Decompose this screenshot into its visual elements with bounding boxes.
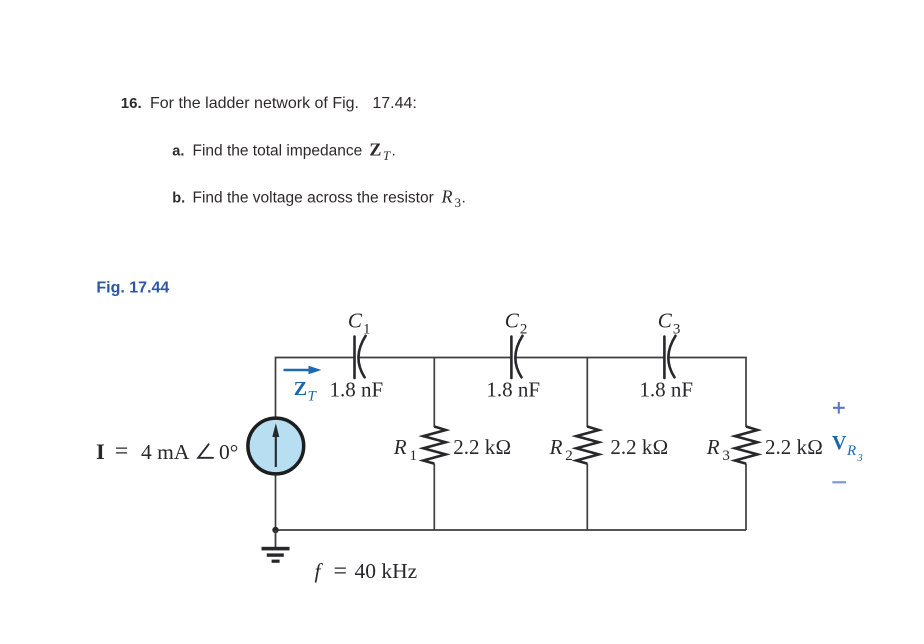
svg-text:1: 1 xyxy=(410,448,418,464)
label R2 xyxy=(549,435,573,464)
svg-text:T: T xyxy=(383,148,391,163)
wire right rail lower xyxy=(745,464,747,531)
angle symbol of source label xyxy=(198,444,213,458)
svg-text:3: 3 xyxy=(722,448,730,464)
label C3 xyxy=(658,309,681,338)
svg-text:.: . xyxy=(462,190,466,207)
svg-text:=: = xyxy=(334,558,348,584)
resistor R1 xyxy=(423,427,446,464)
svg-text:b.: b. xyxy=(172,191,185,207)
wire top segment C2 to C3 xyxy=(516,357,665,359)
svg-text:For the ladder network of Fig.: For the ladder network of Fig. 17.44: xyxy=(150,95,417,112)
svg-text:Find the voltage across the re: Find the voltage across the resistor xyxy=(193,190,434,207)
source label I = 4 mA angle 0deg xyxy=(96,439,238,465)
impedance arrow ZT xyxy=(284,366,322,375)
wire R1 branch lower xyxy=(433,464,435,531)
wire R1 branch upper xyxy=(433,358,435,428)
svg-text:I: I xyxy=(96,439,105,464)
label C1 xyxy=(348,309,371,338)
capacitor C3 xyxy=(664,336,675,378)
svg-text:1.8 nF: 1.8 nF xyxy=(486,378,540,402)
ground xyxy=(262,530,290,563)
wire source bottom xyxy=(275,474,277,530)
svg-text:2.2 kΩ: 2.2 kΩ xyxy=(610,435,668,459)
junction ground node xyxy=(272,527,278,533)
svg-text:a.: a. xyxy=(172,144,184,160)
current source I xyxy=(248,418,304,474)
label ZT xyxy=(294,378,318,405)
problem statement line 16 xyxy=(121,95,417,112)
wire top segment source to C1 xyxy=(276,358,355,419)
wire R2 branch upper xyxy=(586,358,588,428)
svg-text:V: V xyxy=(832,432,847,454)
label R3 xyxy=(706,435,730,464)
svg-text:R: R xyxy=(393,435,407,459)
svg-text:Z: Z xyxy=(369,140,381,160)
svg-text:2.2 kΩ: 2.2 kΩ xyxy=(765,435,823,459)
svg-text:R: R xyxy=(441,187,453,207)
resistor R2 xyxy=(576,427,599,464)
svg-text:16.: 16. xyxy=(121,95,142,112)
svg-text:2.2 kΩ: 2.2 kΩ xyxy=(453,435,511,459)
svg-text:2: 2 xyxy=(565,448,573,464)
label R1 xyxy=(393,435,417,464)
wire top segment C3 to right corner xyxy=(669,358,746,428)
svg-text:T: T xyxy=(308,389,318,405)
svg-text:1: 1 xyxy=(363,322,371,338)
wire bottom rail xyxy=(276,529,747,531)
wire R2 branch lower xyxy=(586,464,588,531)
frequency label f = 40 kHz xyxy=(315,558,418,584)
svg-text:C: C xyxy=(348,309,363,333)
svg-text:0°: 0° xyxy=(219,440,238,464)
svg-text:R: R xyxy=(706,435,720,459)
problem item b xyxy=(172,187,466,211)
wire top segment C1 to C2 xyxy=(359,357,512,359)
svg-text:40 kHz: 40 kHz xyxy=(355,559,418,583)
plus polarity mark xyxy=(833,402,845,414)
problem item a xyxy=(172,140,396,164)
svg-text:3: 3 xyxy=(673,322,681,338)
svg-text:R: R xyxy=(549,435,563,459)
svg-text:3: 3 xyxy=(455,195,462,210)
svg-text:Z: Z xyxy=(294,378,307,400)
svg-text:Find the total impedance: Find the total impedance xyxy=(193,143,363,160)
minus polarity mark xyxy=(832,481,846,483)
svg-text:1.8 nF: 1.8 nF xyxy=(639,378,693,402)
svg-text:f: f xyxy=(315,559,324,583)
svg-text:C: C xyxy=(505,309,520,333)
capacitor C1 xyxy=(355,336,366,378)
svg-text:Fig. 17.44: Fig. 17.44 xyxy=(96,280,169,297)
capacitor C2 xyxy=(511,336,522,378)
svg-text:.: . xyxy=(392,143,396,160)
label C2 xyxy=(505,309,528,338)
svg-text:1.8 nF: 1.8 nF xyxy=(330,378,384,402)
svg-text:4 mA: 4 mA xyxy=(141,440,190,464)
label VR3 xyxy=(832,432,863,464)
svg-text:=: = xyxy=(115,439,129,465)
svg-text:3: 3 xyxy=(857,453,863,464)
resistor R3 xyxy=(735,427,758,464)
svg-text:2: 2 xyxy=(520,322,528,338)
svg-text:R: R xyxy=(846,443,856,459)
svg-text:C: C xyxy=(658,309,673,333)
